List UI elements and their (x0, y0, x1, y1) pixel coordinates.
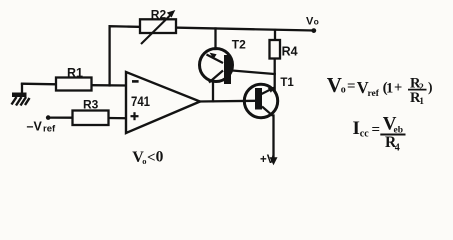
svg-text:+: + (394, 80, 402, 96)
svg-text:4: 4 (395, 142, 400, 153)
svg-text:R2: R2 (151, 8, 167, 22)
svg-text:o: o (314, 17, 319, 27)
svg-text:I: I (353, 118, 360, 139)
svg-text:–V: –V (27, 119, 43, 133)
svg-text:0: 0 (156, 149, 164, 166)
svg-text:o: o (142, 156, 146, 166)
svg-text:1: 1 (386, 81, 393, 97)
svg-text:=: = (347, 79, 356, 95)
svg-text:): ) (428, 79, 433, 94)
svg-text:741: 741 (131, 93, 150, 109)
svg-text:+V: +V (260, 154, 275, 166)
svg-text:cc: cc (360, 129, 369, 140)
svg-text:V: V (327, 73, 342, 97)
svg-text:R4: R4 (282, 44, 298, 58)
svg-text:<: < (147, 150, 156, 166)
svg-text:R1: R1 (67, 66, 83, 80)
svg-text:1: 1 (419, 97, 424, 107)
svg-text:R3: R3 (83, 97, 99, 111)
svg-text:o: o (341, 85, 346, 96)
svg-text:ref: ref (368, 89, 380, 99)
svg-text:ref: ref (43, 124, 56, 135)
svg-text:T1: T1 (280, 77, 294, 89)
svg-text:=: = (372, 122, 381, 138)
svg-text:T2: T2 (232, 37, 246, 51)
